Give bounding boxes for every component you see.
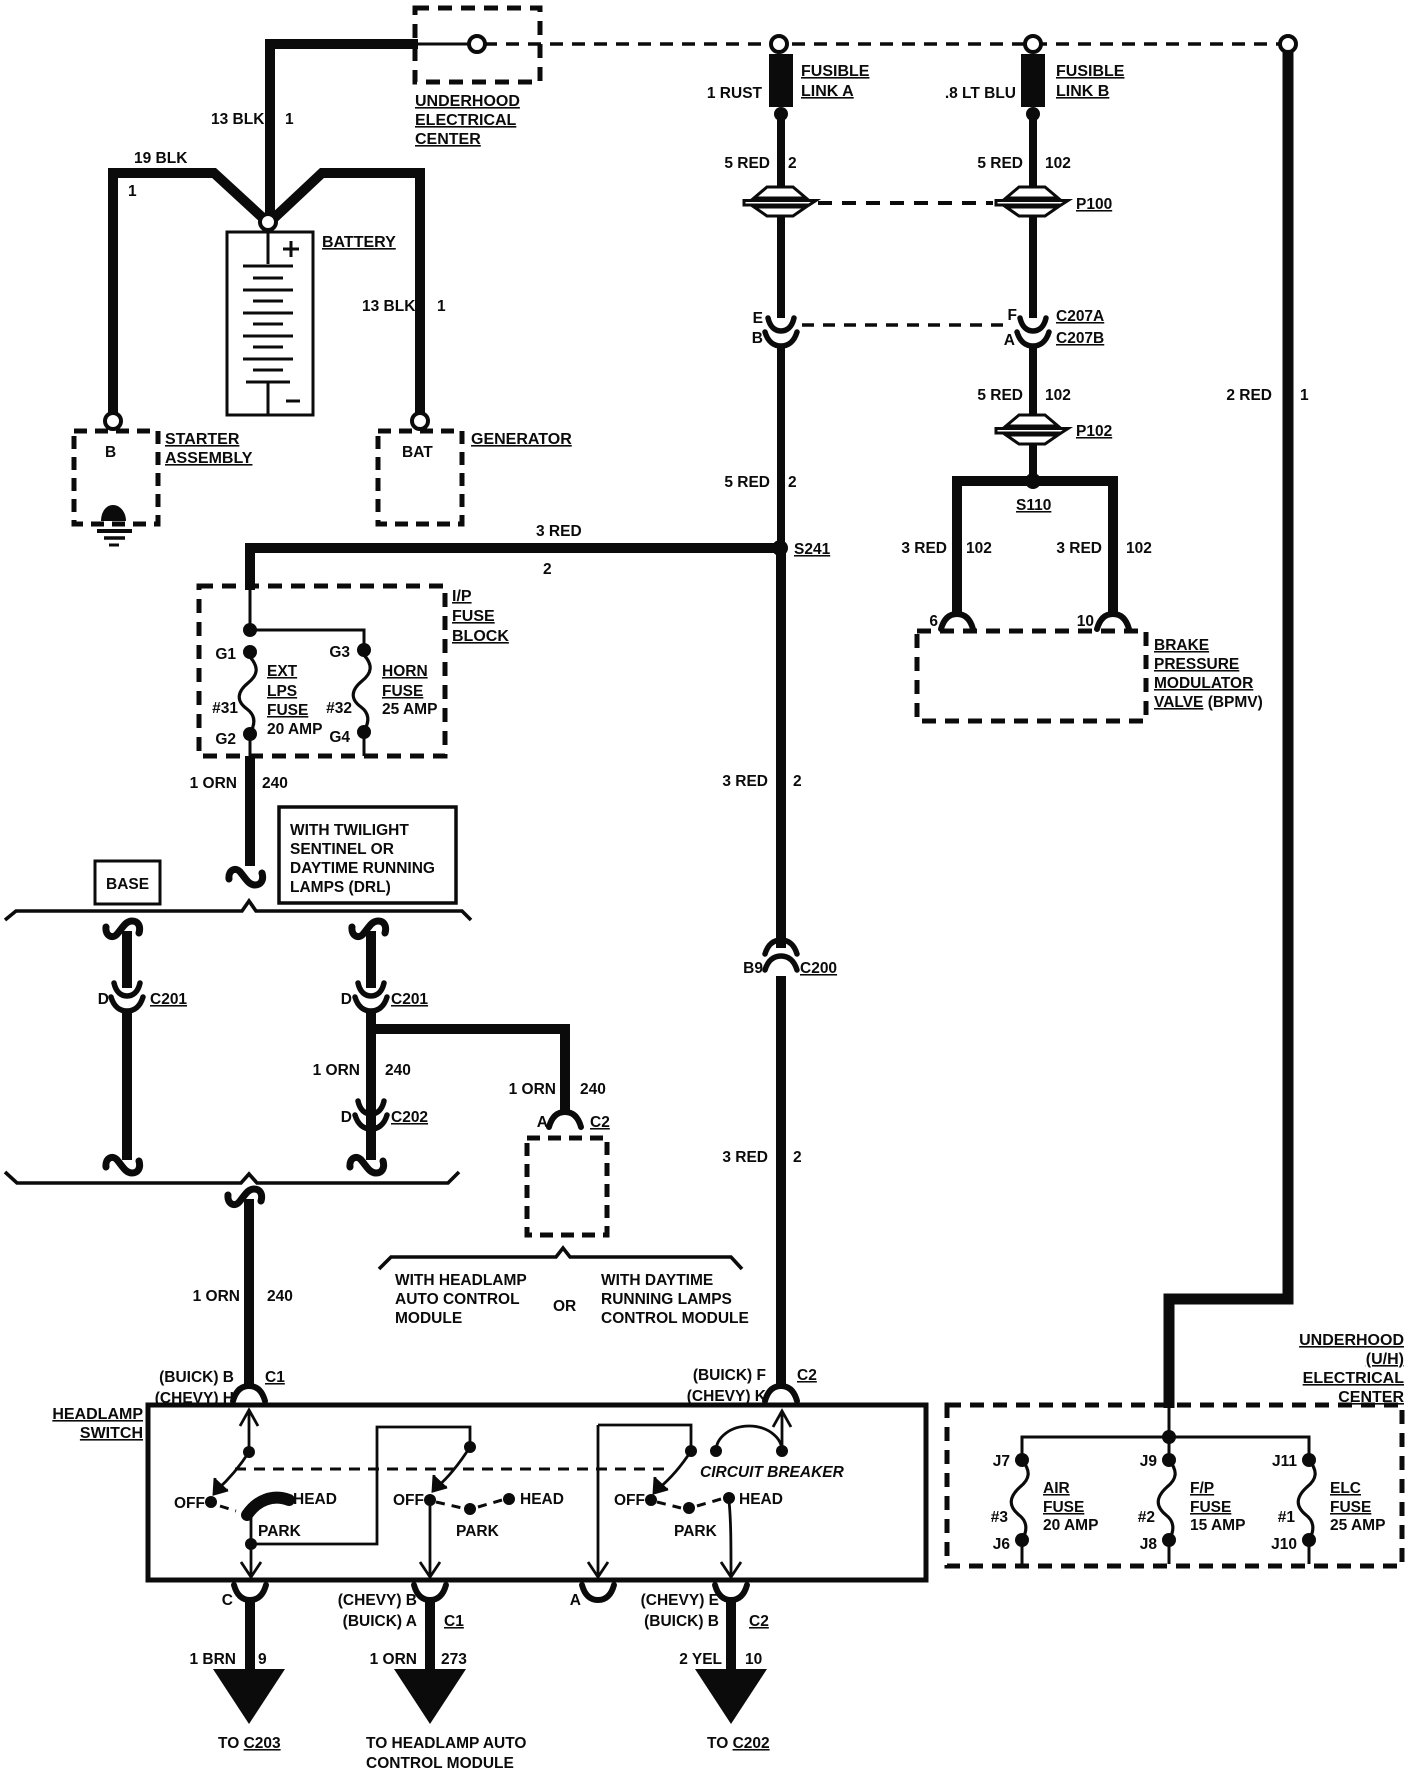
fusible link A [769,54,793,107]
fusible link B [1021,54,1045,107]
connector C2 output (CHEVY E / BUICK B) [715,1585,747,1600]
break (base wire end) [106,1157,140,1173]
svg-text:PARK: PARK [674,1523,718,1540]
connector C201 (drl) pin D [355,983,387,1011]
break (wire continues to options) [229,869,263,885]
switch 2 arm to OFF [433,1447,470,1491]
switch 1 output arrow [241,1544,261,1577]
svg-text:PARK: PARK [456,1523,500,1540]
wire 13 BLK battery to underhood [270,44,418,218]
svg-text:FUSE: FUSE [1190,1499,1231,1516]
svg-text:RUNNING LAMPS: RUNNING LAMPS [601,1291,732,1308]
pin G3 [357,643,371,657]
starter assembly box [74,431,158,524]
options brace (module types) [379,1248,742,1269]
splice S110 [1025,473,1041,489]
svg-text:(BUICK) A: (BUICK) A [343,1613,417,1630]
svg-text:J10: J10 [1271,1536,1297,1553]
svg-text:B: B [105,444,116,461]
svg-text:5 RED: 5 RED [724,474,770,491]
svg-text:3 RED: 3 RED [901,540,947,557]
svg-text:10: 10 [745,1651,762,1668]
grommet P102 [996,415,1068,444]
svg-text:2 YEL: 2 YEL [679,1651,722,1668]
svg-text:LINK B: LINK B [1056,83,1109,100]
svg-text:1 RUST: 1 RUST [707,85,763,102]
pin J11 [1302,1453,1316,1467]
connector C201 (base) pin D [111,983,143,1011]
svg-text:LINK A: LINK A [801,83,854,100]
connector C202 pin D [355,1101,387,1129]
grommet P100 (left) [744,187,816,216]
svg-text:B: B [421,1679,440,1709]
svg-text:1: 1 [1300,387,1309,404]
svg-text:STARTER: STARTER [165,431,240,448]
fuse AIR #3 20A [1011,1460,1028,1540]
grommet P100 (right) [996,187,1068,216]
svg-text:2: 2 [788,474,797,491]
svg-text:J7: J7 [993,1453,1010,1470]
svg-text:A: A [240,1679,259,1709]
pin J6 [1015,1533,1029,1547]
svg-text:DAYTIME RUNNING: DAYTIME RUNNING [290,860,435,877]
options brace (merge) [5,1172,459,1183]
wire feed inside u/h center [1022,1408,1309,1459]
svg-text:BAT: BAT [402,444,433,461]
switch 1 feed arrow [240,1410,258,1452]
connector C200 pin B9 [765,940,797,970]
svg-text:F: F [1008,307,1017,324]
svg-text:A: A [537,1114,548,1131]
svg-text:UNDERHOOD: UNDERHOOD [415,93,520,110]
svg-text:UNDERHOOD: UNDERHOOD [1299,1332,1404,1349]
svg-text:TO C203: TO C203 [218,1735,281,1752]
svg-text:CENTER: CENTER [415,131,481,148]
switch 3 arm to OFF [654,1451,691,1493]
svg-text:ELECTRICAL: ELECTRICAL [1303,1370,1405,1387]
svg-text:C200: C200 [800,960,837,977]
svg-text:(CHEVY) E: (CHEVY) E [641,1592,719,1609]
fuse ELC #1 25A [1298,1460,1315,1540]
svg-text:OR: OR [553,1298,576,1315]
connector BPMV pin 6 [941,614,973,629]
svg-text:C1: C1 [265,1369,285,1386]
svg-text:S110: S110 [1016,497,1051,514]
svg-text:.8 LT BLU: .8 LT BLU [945,85,1016,102]
svg-text:1 BRN: 1 BRN [189,1651,236,1668]
splice S241 [772,540,788,556]
I/P fuse block box [199,586,445,756]
svg-text:BRAKE: BRAKE [1154,637,1209,654]
wire 2 RED 1 to underhood center [1169,52,1288,1408]
options brace (split) [5,901,471,920]
wire 1 ORN 240 to headlamp switch [244,1199,254,1388]
switch linkage dashed line [235,1468,672,1471]
label underhood electrical center [415,93,520,148]
svg-text:D: D [341,991,352,1008]
svg-text:TO C202: TO C202 [707,1735,770,1752]
svg-text:13 BLK: 13 BLK [211,111,265,128]
svg-text:1: 1 [437,298,446,315]
control module box (unnamed) [527,1138,607,1235]
connector C207 pins E/B [765,318,797,346]
svg-text:240: 240 [267,1288,293,1305]
wire 5 RED 102 to P102 [1029,346,1037,420]
svg-text:#1: #1 [1278,1509,1296,1526]
switch 1 pivot [243,1446,255,1458]
output A arrow [588,1562,608,1577]
svg-text:OFF: OFF [614,1492,645,1509]
svg-text:OFF: OFF [174,1495,205,1512]
pin G4 [357,725,371,739]
svg-text:(BUICK) B: (BUICK) B [159,1369,234,1386]
node fusible link A terminal [771,36,787,52]
svg-text:102: 102 [1126,540,1152,557]
dashed link P100 pair [818,201,993,205]
svg-text:9: 9 [258,1651,267,1668]
wire S110 split to BPMV [957,481,1113,614]
wire 5 RED down to C207A [1029,217,1037,318]
breaker feed arrow from C2 [773,1411,791,1451]
connector C2 pin A (module feed) [549,1112,581,1127]
pin J9 [1162,1453,1176,1467]
break (headlamp feed wire start) [228,1189,262,1205]
svg-text:J8: J8 [1140,1536,1158,1553]
svg-text:6: 6 [929,613,938,630]
svg-text:1 ORN: 1 ORN [190,775,237,792]
svg-text:2: 2 [793,773,802,790]
svg-text:BATTERY: BATTERY [322,234,396,251]
svg-text:G1: G1 [215,646,236,663]
connector C207A/C207B pins F/A [1017,318,1049,346]
node fuse feed junction [243,623,257,637]
svg-text:19 BLK: 19 BLK [134,150,188,167]
svg-text:P102: P102 [1076,423,1112,440]
svg-text:2: 2 [788,155,797,172]
svg-text:(BUICK) B: (BUICK) B [644,1613,719,1630]
wire inside fuse block [250,586,364,650]
underhood electrical center box (bottom right) [947,1405,1402,1566]
wire base option [122,931,132,988]
svg-text:GENERATOR: GENERATOR [471,431,572,448]
fuse HORN #32 25A [353,655,370,731]
svg-text:HEAD: HEAD [739,1491,783,1508]
wire 5 RED 102 [1029,114,1037,190]
svg-text:#32: #32 [326,700,352,717]
svg-text:G3: G3 [329,644,350,661]
svg-text:5 RED: 5 RED [724,155,770,172]
svg-text:ELC: ELC [1330,1480,1361,1497]
svg-text:3 RED: 3 RED [1056,540,1102,557]
svg-text:ELECTRICAL: ELECTRICAL [415,112,517,129]
svg-text:FUSE: FUSE [1330,1499,1371,1516]
svg-text:C2: C2 [797,1367,817,1384]
connector C1 output (CHEVY B / BUICK A) [414,1585,446,1600]
ground (starter case) [101,505,126,521]
svg-text:B: B [752,330,763,347]
svg-text:CONTROL MODULE: CONTROL MODULE [366,1755,514,1772]
pin G2 [243,727,257,741]
svg-text:13 BLK: 13 BLK [362,298,416,315]
wire 13 BLK battery to generator [273,173,420,415]
break (drl option wire) [352,921,386,937]
wire 3 RED to S241 [250,548,780,590]
svg-text:C207B: C207B [1056,330,1104,347]
wire 1 BRN 9 [245,1599,255,1672]
svg-text:15 AMP: 15 AMP [1190,1517,1245,1534]
wire G4 to block edge [363,732,366,756]
svg-text:2: 2 [793,1149,802,1166]
svg-text:HEAD: HEAD [293,1491,337,1508]
wire to S110 [1029,444,1037,481]
svg-text:1 ORN: 1 ORN [509,1081,556,1098]
svg-text:P100: P100 [1076,196,1112,213]
svg-text:WITH DAYTIME: WITH DAYTIME [601,1272,713,1289]
svg-text:SWITCH: SWITCH [80,1425,143,1442]
svg-text:PRESSURE: PRESSURE [1154,656,1239,673]
svg-text:102: 102 [1045,387,1071,404]
switch 2 pivot [464,1441,476,1453]
svg-text:1 ORN: 1 ORN [193,1288,240,1305]
svg-text:FUSE: FUSE [382,683,423,700]
svg-text:(BUICK) F: (BUICK) F [693,1367,766,1384]
svg-text:3 RED: 3 RED [722,773,768,790]
svg-text:1 ORN: 1 ORN [370,1651,417,1668]
dashed link C207 pair [802,323,1008,326]
svg-text:2: 2 [543,561,552,578]
svg-text:BASE: BASE [106,876,149,893]
svg-text:C2: C2 [749,1613,769,1630]
headlamp switch box [148,1405,926,1580]
svg-text:(CHEVY) K: (CHEVY) K [687,1388,767,1405]
pin J10 [1302,1533,1316,1547]
wire below C201 (drl) with branch [369,1012,565,1160]
brake pressure modulator valve box [917,631,1146,721]
node park junction [245,1538,257,1550]
svg-text:D: D [98,991,109,1008]
svg-text:F/P: F/P [1190,1480,1214,1497]
DRL option box [279,807,456,903]
svg-text:273: 273 [441,1651,467,1668]
svg-text:20 AMP: 20 AMP [267,721,322,738]
switch 1 park contact wire [251,1427,470,1544]
svg-text:OFF: OFF [393,1492,424,1509]
svg-text:5 RED: 5 RED [977,155,1023,172]
node fusible link B terminal [1025,36,1041,52]
svg-text:WITH TWILIGHT: WITH TWILIGHT [290,822,409,839]
svg-text:240: 240 [262,775,288,792]
fuse F/P #2 15A [1158,1460,1175,1540]
svg-text:1 ORN: 1 ORN [313,1062,360,1079]
svg-text:J9: J9 [1140,1453,1158,1470]
svg-text:HORN: HORN [382,663,428,680]
svg-text:240: 240 [385,1062,411,1079]
destination triangle A [213,1669,285,1724]
svg-text:#2: #2 [1138,1509,1155,1526]
svg-text:A: A [1004,332,1015,349]
svg-text:25 AMP: 25 AMP [382,701,437,718]
svg-text:AIR: AIR [1043,1480,1070,1497]
break (drl wire end) [350,1157,384,1173]
svg-text:FUSIBLE: FUSIBLE [1056,63,1125,80]
destination triangle C [695,1669,767,1724]
svg-text:MODULATOR: MODULATOR [1154,675,1253,692]
wire 19 BLK battery to starter [113,173,264,415]
wire 5 RED down to C207 [777,217,785,318]
svg-text:(U/H): (U/H) [1366,1351,1404,1368]
node starter terminal B [105,413,121,429]
svg-text:1: 1 [128,183,137,200]
wire G2 to block edge [249,734,252,756]
svg-text:FUSE: FUSE [267,702,308,719]
svg-text:CONTROL MODULE: CONTROL MODULE [601,1310,749,1327]
svg-text:C201: C201 [391,991,428,1008]
pin J8 [1162,1533,1176,1547]
svg-text:SENTINEL OR: SENTINEL OR [290,841,394,858]
switch 3 output arrow [721,1501,741,1577]
svg-text:C2: C2 [590,1114,610,1131]
switch 1 arm to OFF [214,1452,249,1494]
node generator terminal BAT [412,413,428,429]
node feed junction [1162,1430,1176,1444]
wire 1 ORN 240 below fuse block [245,756,255,866]
svg-text:#31: #31 [212,700,238,717]
wire 2 YEL 10 [726,1599,736,1672]
svg-text:FUSIBLE: FUSIBLE [801,63,870,80]
connector C output [234,1585,266,1600]
wire 5 RED 2 to S241 [777,346,785,548]
svg-text:MODULE: MODULE [395,1310,462,1327]
svg-text:25 AMP: 25 AMP [1330,1517,1385,1534]
top bus dashed wire [484,42,1280,46]
wire 3 RED 2 to headlamp switch [776,976,786,1388]
svg-text:A: A [570,1592,581,1609]
switch 2 output arrow [420,1503,440,1577]
battery B1 [227,232,313,415]
fuse EXT LPS #31 20A [239,657,256,733]
svg-text:102: 102 [1045,155,1071,172]
svg-text:(CHEVY) B: (CHEVY) B [338,1592,417,1609]
svg-text:C: C [722,1679,741,1709]
svg-text:C: C [222,1592,233,1609]
wire 1 ORN 273 [425,1599,435,1672]
svg-text:PARK: PARK [258,1523,302,1540]
generator box [378,431,462,524]
svg-text:3 RED: 3 RED [536,523,582,540]
switch 2 contacts [436,1502,462,1508]
svg-text:J11: J11 [1272,1453,1297,1470]
connector A output (unused) [582,1585,614,1600]
wire below C201 (base) [122,1012,132,1160]
wire inside underhood box [417,43,470,46]
svg-text:EXT: EXT [267,663,298,680]
svg-text:102: 102 [966,540,992,557]
svg-text:TO HEADLAMP AUTO: TO HEADLAMP AUTO [366,1735,526,1752]
svg-text:10: 10 [1077,613,1094,630]
svg-text:20 AMP: 20 AMP [1043,1517,1098,1534]
svg-text:G4: G4 [329,729,350,746]
wire drl option [366,931,376,988]
svg-text:#3: #3 [991,1509,1009,1526]
switch 3 contacts [657,1502,681,1508]
circuit breaker [685,1445,697,1457]
svg-text:HEAD: HEAD [520,1491,564,1508]
svg-text:E: E [753,310,763,327]
underhood electrical center box (top) [415,8,540,82]
svg-text:CENTER: CENTER [1338,1389,1404,1406]
destination triangle B [394,1669,466,1724]
svg-text:C201: C201 [150,991,187,1008]
svg-text:1: 1 [285,111,294,128]
break (base option wire) [106,921,140,937]
svg-text:C207A: C207A [1056,308,1104,325]
wire 3 RED 2 to C200 [776,548,786,948]
svg-text:CIRCUIT BREAKER: CIRCUIT BREAKER [700,1464,845,1481]
node: underhood center terminal [469,36,485,52]
svg-text:C202: C202 [391,1109,428,1126]
svg-text:C1: C1 [444,1613,464,1630]
svg-text:2 RED: 2 RED [1226,387,1272,404]
svg-text:3 RED: 3 RED [722,1149,768,1166]
svg-text:ASSEMBLY: ASSEMBLY [165,450,253,467]
node battery positive terminal [260,214,276,230]
svg-text:FUSE: FUSE [1043,1499,1084,1516]
svg-text:LPS: LPS [267,683,297,700]
svg-text:VALVE (BPMV): VALVE (BPMV) [1154,694,1263,711]
node 2 RED feed terminal [1280,36,1296,52]
svg-text:FUSE: FUSE [452,608,495,625]
connector BPMV pin 10 [1097,614,1129,629]
svg-text:J6: J6 [993,1536,1011,1553]
svg-text:B9: B9 [743,960,763,977]
svg-text:I/P: I/P [452,588,472,605]
pin G1 [243,645,257,659]
svg-text:D: D [341,1109,352,1126]
wire 5 RED 2 [777,114,785,190]
svg-text:G2: G2 [215,731,236,748]
svg-text:BLOCK: BLOCK [452,628,509,645]
svg-text:WITH HEADLAMP: WITH HEADLAMP [395,1272,527,1289]
switch 3 feed from breaker [598,1425,691,1576]
svg-text:HEADLAMP: HEADLAMP [52,1406,143,1423]
switch 1 wiper (PARK position) [247,1498,289,1515]
svg-text:5 RED: 5 RED [977,387,1023,404]
svg-text:AUTO CONTROL: AUTO CONTROL [395,1291,520,1308]
pin J7 [1015,1453,1029,1467]
BASE option box [95,861,160,904]
svg-text:S241: S241 [794,541,831,558]
svg-text:LAMPS (DRL): LAMPS (DRL) [290,879,391,896]
svg-text:240: 240 [580,1081,606,1098]
